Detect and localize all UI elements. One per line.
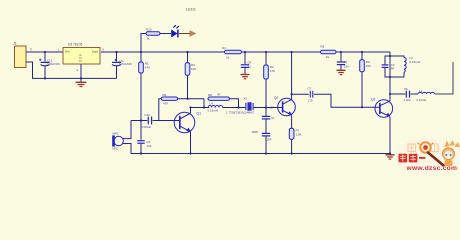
wire C7 to Q3 base [314,94,375,107]
svg-text:L2: L2 [419,89,423,93]
svg-text:R4: R4 [222,46,226,50]
wire R3 down to R6-R8 wire [187,75,189,99]
wire R8 right stub [230,99,239,108]
svg-text:Q1: Q1 [197,112,202,116]
svg-text:2: 2 [77,68,79,72]
power port arrow [190,31,196,37]
LED1 label [186,7,197,12]
regulator U5 78L05 [58,42,104,72]
wire Q2 emitter [291,115,293,128]
wire R7 to ground rail [291,139,293,153]
svg-text:MK1: MK1 [113,132,120,136]
crystal X1 [226,97,254,115]
svg-text:D: D [79,59,81,63]
svg-text:X1: X1 [244,97,248,101]
svg-text:U5 78L05: U5 78L05 [68,42,82,46]
svg-text:1.5K: 1.5K [296,133,302,137]
wire Q1 collector [190,108,192,114]
svg-text:0.12mH: 0.12mH [417,98,427,102]
svg-text:C7: C7 [308,87,312,91]
wire Q2 collector to rail [291,52,293,100]
svg-text:170: 170 [308,99,313,103]
svg-text:104: 104 [344,65,349,69]
wire V+ rail segment 2 [242,51,321,53]
pin 2 label [30,48,32,52]
svg-text:150P: 150P [252,130,259,134]
svg-text:MIC: MIC [113,147,119,151]
svg-text:R6: R6 [163,93,167,97]
wire Q3 collector to rail [389,52,391,101]
svg-text:1.0uF: 1.0uF [404,98,411,102]
svg-text:102: 102 [147,144,152,148]
wire collector node to C6 [390,93,405,95]
wire Q3 emitter to ground rail [389,117,391,154]
watermark magnifier handle [428,153,444,166]
svg-text:1k: 1k [147,37,151,41]
capacitor C5 [337,52,349,70]
svg-text:R5: R5 [321,45,325,49]
svg-text:100UF/16V: 100UF/16V [47,62,60,66]
wire node A vertical x204 [203,99,205,108]
wire V+ down branch x141 upper [140,52,142,62]
wire C6 to L2 [411,93,419,95]
watermark url [406,165,458,172]
svg-text:1u: 1u [248,65,252,69]
wire signal y107.5 segment 2 [223,107,246,109]
wire R2 down to base node [265,79,267,116]
capacitor C3 [262,106,275,121]
wire Q1 emitter to rail [190,132,192,154]
svg-text:10K: 10K [366,64,371,68]
svg-text:Q3: Q3 [371,98,375,102]
resistor R1 [139,62,150,74]
watermark mascot [443,140,460,166]
wire mic lower lead [123,144,131,154]
wire tank top stub [385,56,404,64]
svg-text:47: 47 [217,92,221,96]
svg-text:1k: 1k [326,55,330,59]
capacitor C7 [308,87,313,103]
svg-text:C6: C6 [404,87,408,91]
wire mic upper lead [123,121,131,139]
transistor Q2 [274,96,295,116]
capacitor C2 mic bypass [137,140,152,148]
resistor R4 [222,46,242,60]
wire tank bottom stub [385,68,404,77]
svg-text:Vin: Vin [65,50,70,54]
capacitor C8 [241,52,252,74]
wire R6 left drop to base [159,99,162,121]
svg-text:100UF/16V: 100UF/16V [119,62,132,66]
svg-text:Vout: Vout [92,50,98,54]
resistor R10 [146,28,160,41]
wire V+ rail segment 1 [101,51,225,53]
svg-text:7P: 7P [271,116,275,120]
wire V+ rail segment 3 [336,51,390,53]
capacitor C10 coupling [141,113,152,129]
wire C3 to C4 [265,119,267,133]
svg-text:15P: 15P [269,106,274,110]
wire x141 lower [140,144,142,154]
wire R9 to Q3 base wire [361,72,363,108]
microphone MK1 [112,132,123,151]
wire LED to power arrow [179,33,190,35]
svg-text:C10: C10 [145,113,151,117]
resistor R6 [161,93,177,106]
svg-text:1k: 1k [226,56,230,60]
watermark text weiku [399,154,426,163]
ground symbol bottom right [386,155,395,159]
wire antenna [435,62,453,94]
resistor R9 [360,52,371,72]
wire R6 right to node [178,98,204,100]
wire audio node to C10 [131,120,147,122]
wire LED branch [141,34,146,53]
svg-text:1.7756(T5615C)4MHZ: 1.7756(T5615C)4MHZ [226,111,254,115]
resistor R7 [289,128,301,139]
svg-text:L4: L4 [210,102,214,106]
svg-text:Q2: Q2 [274,96,278,100]
svg-text:0.15mH: 0.15mH [410,60,421,64]
svg-text:C11: C11 [119,59,124,63]
capacitor C9 [382,63,395,71]
svg-text:J1: J1 [13,42,17,46]
transistor Q1 [174,112,201,133]
ground symbol below C5 [337,70,346,74]
wire x141 mid [140,73,142,140]
watermark glow backdrop [396,138,460,174]
svg-text:47K: 47K [145,66,150,70]
wire R10 to LED1 [160,33,171,35]
svg-text:3: 3 [102,48,104,52]
svg-text:10K: 10K [191,67,196,71]
svg-text:0.15mH: 0.15mH [208,108,219,112]
svg-text:47K: 47K [163,102,168,106]
svg-text:47K: 47K [270,69,275,73]
resistor R2 bias [264,52,275,79]
resistor R3 [185,52,196,75]
svg-text:9P: 9P [391,67,395,71]
wire U5 GND pin down [80,64,82,82]
inductor L2 [417,89,435,102]
wire Q2 collector to C7 [292,93,309,95]
svg-text:R8: R8 [208,93,212,97]
ground symbol below U5 [76,82,87,86]
wire ground rail bottom [131,153,390,155]
svg-text:C5: C5 [344,60,348,64]
wire J1 pin2 to U5 Vin [26,51,63,53]
svg-text:15P: 15P [267,138,272,142]
wire J1 pin1 ground return [26,62,117,78]
wire C4 to ground rail [265,136,267,153]
svg-text:0.022uF: 0.022uF [141,125,152,129]
resistor R8 [208,92,230,100]
svg-text:2: 2 [30,48,32,52]
wire C10 to Q1 base [153,120,175,122]
svg-text:1: 1 [58,48,60,52]
wire signal y107.5 segment 1 [191,107,210,109]
capacitor C12 [39,52,60,78]
svg-text:R10: R10 [146,28,152,32]
connector J1 [13,42,26,68]
inductor L4 [208,102,223,113]
ground symbol below C8 [241,75,250,79]
transistor Q3 [371,98,393,118]
svg-text:LED1: LED1 [186,7,197,12]
svg-text:www.dzsc.com: www.dzsc.com [406,165,458,172]
capacitor C6 [404,87,411,102]
wire X1 to Q2 base [254,107,278,109]
LED1 [172,25,180,38]
capacitor C11 [112,52,132,78]
inductor L3 [404,56,420,72]
watermark logo ring [408,142,438,152]
capacitor C4 [252,130,272,142]
resistor R5 [321,45,337,60]
